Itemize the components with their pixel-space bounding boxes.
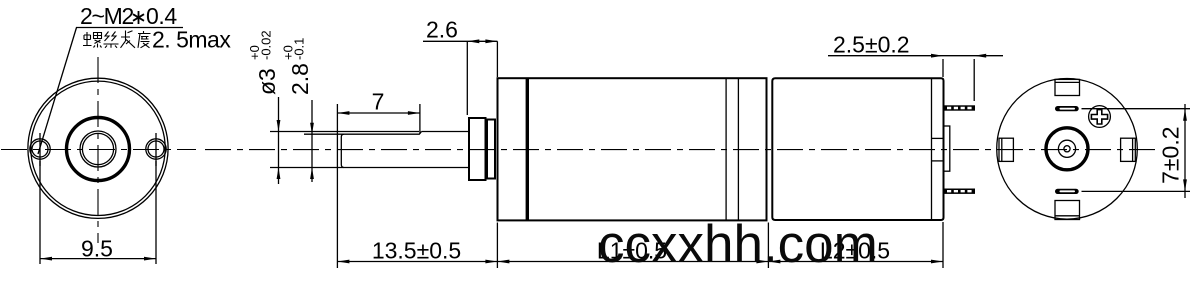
tab bottom inner line: [1055, 215, 1080, 217]
svg-text:-0.1: -0.1: [292, 38, 307, 60]
ext line motor rear bottom: [942, 222, 944, 268]
shaft top edge after flat step: [422, 131, 470, 133]
svg-text:2.8: 2.8: [287, 63, 313, 95]
dim2.8 arrow bottom: [310, 168, 314, 180]
motor body: [772, 78, 943, 220]
ext line junction bottom: [767, 223, 769, 269]
front view inner rim circle: [31, 81, 165, 215]
arrow 7 right: [408, 111, 420, 115]
dim2.6 extension line right stub: [496, 41, 498, 77]
rear view outer circle: [997, 79, 1138, 220]
front view shaft hole circle: [80, 131, 116, 167]
bottom chained dimension line: [337, 261, 943, 263]
note text line2 Chinese 度: [138, 31, 151, 48]
screw head cross: [1091, 110, 1107, 124]
asterisk symbol: [133, 11, 144, 24]
dimension line 7: [337, 112, 420, 114]
side view main centerline: [205, 149, 1158, 151]
rear view boss circle: [1046, 128, 1088, 170]
mounting hole right vertical centerline: [155, 133, 157, 166]
svg-text:2. 5max: 2. 5max: [152, 27, 231, 53]
svg-text:2.6: 2.6: [426, 17, 458, 43]
mounting hole left outer: [30, 139, 50, 159]
note text line2 Chinese 长: [121, 31, 136, 48]
front view shaft hole inner circle: [82, 133, 113, 164]
shaft bottom extension line: [270, 167, 341, 169]
collar washer 2: [487, 120, 495, 179]
dim7 left extension line (shared with 13.5): [336, 104, 338, 268]
vent slot bottom: [1055, 189, 1079, 194]
front view horizontal centerline: [1, 149, 196, 151]
vent slot top: [1055, 106, 1079, 111]
dia3 dimension line vertical: [278, 97, 280, 184]
arrow 7±0.2 bottom: [1183, 179, 1187, 191]
shaft bottom silhouette line: [341, 167, 469, 169]
ext line gearbox face bottom: [496, 223, 498, 269]
motor bearing boss: [944, 126, 950, 171]
svg-text:2.5±0.2: 2.5±0.2: [833, 32, 910, 58]
svg-text:9.5: 9.5: [81, 236, 113, 262]
ext line slot top: [1082, 108, 1191, 110]
shaft flat extension line: [304, 133, 341, 135]
mounting hole left inner: [32, 141, 48, 157]
arrow 7±0.2 top: [1183, 109, 1187, 121]
arrow 2.5 left (points right): [931, 54, 943, 58]
screw head circle: [1089, 106, 1111, 128]
motor seam line: [931, 78, 933, 220]
arrow 7 left: [337, 111, 349, 115]
arrow 9.5 right: [144, 257, 156, 261]
gearbox ring line 2: [737, 78, 739, 220]
svg-text:13.5±0.5: 13.5±0.5: [372, 238, 461, 264]
dimension line 9.5: [40, 258, 156, 260]
tab left inner line: [1001, 138, 1003, 161]
arrow L1 left: [497, 260, 509, 264]
dia3 arrow top: [277, 120, 281, 132]
arrow 13.5 right: [485, 260, 497, 264]
rear view bearing circle: [1058, 140, 1075, 157]
shaft end cap: [341, 134, 344, 167]
svg-text:-0.02: -0.02: [259, 30, 274, 60]
front view vertical centerline: [97, 57, 99, 243]
terminal bottom: [944, 189, 976, 194]
tab bottom: [1055, 201, 1080, 220]
dim7 right extension line: [419, 104, 421, 134]
arrow 13.5 left: [337, 260, 349, 264]
shaft flat silhouette line with step: [341, 132, 422, 135]
dim2.8 arrow top: [310, 123, 314, 135]
note text line2 Chinese 丝: [104, 32, 119, 48]
tab top: [1055, 79, 1080, 95]
dimension line 2.6: [423, 40, 497, 42]
tab top inner line: [1055, 81, 1080, 83]
motor hub line top: [932, 137, 944, 139]
ext line slot bottom: [1082, 190, 1191, 192]
dim2.8 dimension line vertical: [311, 100, 313, 182]
dim2.5 ext line motor face: [942, 59, 944, 77]
terminal top: [944, 105, 976, 110]
svg-text:7: 7: [372, 89, 385, 115]
gearbox ring line 1: [725, 78, 727, 220]
svg-text:7±0.2: 7±0.2: [1158, 127, 1184, 184]
leader line to mounting hole: [38, 28, 77, 155]
tab right: [1121, 138, 1136, 161]
arrow L2 left: [768, 260, 780, 264]
note underline: [76, 27, 183, 29]
arrow 2.5 right (points left): [974, 54, 986, 58]
collar washer 1: [469, 118, 486, 180]
tab left: [999, 138, 1013, 161]
mounting hole right outer: [146, 139, 166, 159]
tab right inner line: [1132, 138, 1134, 161]
mounting hole left vertical centerline: [39, 133, 41, 166]
arrow L1 right: [756, 260, 768, 264]
arrow 2.6 left: [467, 39, 479, 43]
front view center boss ring: [67, 118, 130, 181]
arrow 9.5 left: [40, 257, 52, 261]
hole dim extension line right: [155, 161, 157, 264]
hole dim extension line left: [39, 161, 41, 264]
dim2.6 extension line left: [466, 41, 468, 115]
front view outer circle: [28, 78, 168, 218]
shaft top silhouette line (dia3) with ext: [270, 131, 419, 133]
dimension line 7±0.2: [1184, 104, 1186, 198]
arrow 2.6 right: [485, 39, 497, 43]
svg-text:ccxxhh.com: ccxxhh.com: [598, 215, 878, 274]
svg-text:0.4: 0.4: [146, 3, 177, 29]
svg-text:ø3: ø3: [254, 68, 280, 95]
dim2.5 ext line terminal tip: [973, 59, 975, 101]
gearbox front plate thick line: [526, 78, 529, 220]
mounting hole right inner: [148, 141, 164, 157]
motor hub line bottom: [932, 160, 944, 162]
svg-text:2~M2: 2~M2: [80, 3, 133, 29]
dia3 arrow bottom: [277, 168, 281, 180]
note text line2 Chinese 螺: [83, 32, 102, 48]
gearbox body: [498, 78, 767, 220]
dim2.5 dimension line with landing: [828, 55, 1003, 57]
rear view shaft end circle: [1064, 146, 1070, 152]
arrow L2 right: [931, 260, 943, 264]
